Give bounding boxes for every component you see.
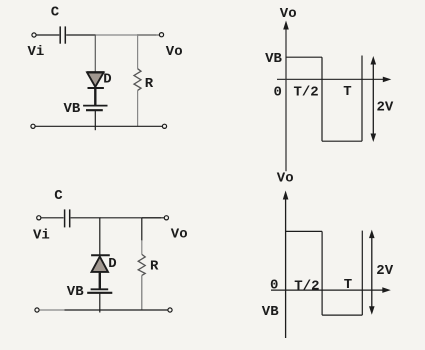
wire node C to node D (top)	[100, 217, 161, 219]
terminal Vi+ (top-left input)	[32, 33, 36, 37]
svg-text:Vi: Vi	[28, 44, 45, 60]
svg-text:Vi: Vi	[33, 227, 50, 243]
svg-text:R: R	[150, 258, 159, 274]
wire node B down to resistor	[137, 35, 139, 69]
dimension arrow 2V (bottom graph)	[369, 230, 375, 315]
waveform top segment (bottom graph)	[286, 230, 323, 232]
wire node B to output terminal	[137, 34, 160, 36]
svg-text:VB: VB	[67, 284, 84, 300]
battery VB2	[87, 289, 112, 293]
terminal Vo- (bottom-right)	[162, 124, 166, 128]
wire node D down to resistor	[141, 218, 143, 241]
svg-text:T: T	[344, 277, 352, 293]
svg-text:2V: 2V	[377, 100, 394, 116]
terminal Vo+ (top-right output)	[159, 33, 163, 37]
wire battery to bottom rail	[99, 293, 101, 313]
waveform VB level segment	[286, 56, 322, 58]
bottom rail wire	[36, 125, 163, 127]
svg-text:Vo: Vo	[277, 171, 294, 187]
wire node D to output terminal	[142, 217, 164, 219]
svg-text:Vo: Vo	[171, 227, 188, 243]
axis Vo (vertical)	[283, 21, 289, 172]
dimension arrow 2V (top graph)	[371, 56, 377, 142]
svg-text:C: C	[51, 5, 60, 21]
svg-text:C: C	[54, 188, 63, 204]
svg-text:T/2: T/2	[294, 279, 319, 295]
svg-text:2V: 2V	[376, 263, 393, 279]
bottom rail wire left gray segment	[40, 309, 65, 311]
wire input to capacitor	[41, 217, 63, 219]
terminal Vo- (lower circuit)	[168, 308, 172, 312]
svg-text:Vo: Vo	[280, 6, 297, 22]
waveform bottom segment (bottom graph)	[322, 314, 362, 316]
svg-text:VB: VB	[64, 101, 81, 117]
waveform falling edge (bottom graph)	[321, 231, 323, 315]
bottom rail wire (lower circuit)	[65, 309, 168, 311]
svg-text:D: D	[103, 72, 111, 88]
wire capacitor to node C	[71, 217, 101, 219]
waveform bottom segment	[322, 140, 362, 142]
wire battery to bottom rail	[94, 110, 96, 130]
waveform falling edge	[321, 57, 323, 141]
svg-text:VB: VB	[262, 304, 279, 320]
svg-text:0: 0	[274, 85, 282, 101]
diode D1 (cathode-up? pointing down)	[87, 72, 105, 88]
svg-text:0: 0	[270, 277, 278, 293]
waveform rising edge	[361, 56, 363, 142]
terminal Vi- (lower circuit)	[35, 308, 39, 312]
battery VB1	[83, 106, 107, 111]
wire resistor to bottom rail	[137, 90, 139, 126]
terminal Vo+ (output, lower circuit)	[164, 216, 168, 220]
svg-text:T: T	[343, 84, 351, 100]
wire node C down to diode	[99, 218, 101, 256]
svg-text:VB: VB	[265, 51, 282, 67]
wire input to capacitor	[37, 34, 60, 36]
svg-text:T/2: T/2	[294, 85, 319, 101]
wire diode to battery (thick)	[94, 88, 96, 106]
capacitor C1	[60, 26, 65, 43]
resistor R2	[138, 254, 145, 275]
terminal Vi+ (input, lower circuit)	[37, 216, 41, 220]
diode D2 (pointing up)	[91, 255, 110, 272]
wire node A to node B (top)	[95, 34, 156, 36]
wire capacitor to node A	[66, 34, 96, 36]
capacitor C2	[65, 209, 70, 227]
wire node A down to diode	[94, 35, 96, 72]
axis t horizontal (bottom graph)	[271, 287, 391, 293]
svg-text:D: D	[108, 256, 116, 272]
wire resistor to bottom rail	[141, 275, 143, 310]
resistor R1	[134, 69, 141, 91]
axis t (horizontal)	[277, 77, 391, 83]
waveform rising edge (bottom graph)	[361, 231, 363, 316]
svg-text:R: R	[145, 76, 154, 92]
terminal Vi- (bottom-left)	[31, 124, 35, 128]
axis Vo vertical (bottom graph)	[283, 191, 289, 339]
svg-text:Vo: Vo	[166, 44, 183, 60]
wire diode to battery (thick)	[99, 272, 101, 289]
